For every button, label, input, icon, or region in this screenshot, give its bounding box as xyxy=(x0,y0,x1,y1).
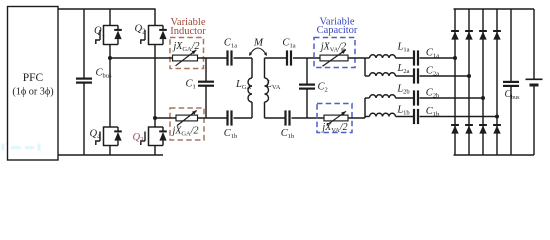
wire split top vertical xyxy=(364,58,366,76)
variable capacitor jXVA/2 top symbol xyxy=(320,55,348,61)
wire leg B (Q2 source to Q3 drain) xyxy=(154,45,156,128)
wire L1a to C1a xyxy=(396,57,414,59)
inductor L2b coil xyxy=(370,95,396,98)
wire LVA bottom lead xyxy=(264,102,266,118)
wire variable inductor to node C1 xyxy=(198,57,228,59)
wire C_bus bottom xyxy=(83,83,85,155)
diode D2 top xyxy=(465,30,473,32)
capacitor C1b left plates xyxy=(226,110,228,125)
wire C2b to rectifier leg xyxy=(420,97,484,99)
wire right rail bottom xyxy=(306,89,308,118)
svg-text:(1ϕ or 3ϕ): (1ϕ or 3ϕ) xyxy=(12,87,53,98)
wire C_bus top xyxy=(83,9,85,78)
dashed box variable capacitor top xyxy=(314,38,355,68)
node rectifier leg 4 junction xyxy=(495,115,499,119)
PFC converter block xyxy=(8,7,59,161)
wire LVA bottom to C1b right xyxy=(265,117,286,119)
svg-text:Capacitor: Capacitor xyxy=(317,25,358,36)
dashed box variable capacitor bottom xyxy=(317,104,352,133)
wire L1b to C1b xyxy=(396,116,414,118)
dashed box variable inductor bottom xyxy=(170,108,204,140)
svg-text:PFC: PFC xyxy=(23,72,44,84)
wire C1b to LGA bottom xyxy=(234,117,253,119)
wire top rail (PFC to Q2 drain) xyxy=(58,8,156,10)
wire left rail bottom xyxy=(205,86,207,118)
wire LGA bottom lead xyxy=(251,102,253,118)
wire rectifier top rail xyxy=(454,8,535,10)
diode D3 top xyxy=(479,30,487,32)
svg-text:M: M xyxy=(253,37,264,49)
wire L2a to C2a xyxy=(396,75,414,77)
node A junction xyxy=(108,56,112,60)
capacitor C1a right plates xyxy=(286,50,288,65)
wire right rail top xyxy=(306,58,308,84)
diode D3 bottom xyxy=(479,124,487,126)
diode D2 bottom xyxy=(465,124,473,126)
diode D1 top xyxy=(451,30,459,32)
capacitor C1a plates xyxy=(413,50,415,65)
node rectifier leg 3 junction xyxy=(481,96,485,100)
capacitor C_bus output plates xyxy=(503,81,519,83)
wire C1b to rectifier leg xyxy=(420,116,498,118)
capacitor C2 plates xyxy=(299,83,315,85)
wire output capacitor top xyxy=(510,9,512,82)
node rectifier leg 2 junction xyxy=(467,74,471,78)
transistor Q2 xyxy=(149,25,164,27)
wire rectifier leg 3 xyxy=(482,9,484,155)
wire output capacitor bottom xyxy=(510,87,512,156)
wire bottom rail (PFC to Q3 source) xyxy=(58,154,163,156)
wire rectifier bottom rail xyxy=(454,154,535,156)
wire node A to variable inductor xyxy=(110,57,173,59)
node B junction xyxy=(153,116,157,120)
transistor Q4 xyxy=(104,126,119,128)
wire var cap top to split xyxy=(348,57,370,59)
diode D1 bottom xyxy=(451,124,459,126)
wire variable inductor bottom to C1b xyxy=(198,117,228,119)
inductor L2a coil xyxy=(370,73,396,76)
wire left rail top xyxy=(205,58,207,82)
wire rectifier leg 1 xyxy=(454,9,456,155)
capacitor C2a plates xyxy=(413,68,415,83)
wire C1a right to right rail xyxy=(293,57,320,59)
wire battery top xyxy=(533,9,535,79)
wire C2a to rectifier leg xyxy=(420,75,470,77)
mutual coupling M arc xyxy=(250,48,267,55)
wire C1a to rectifier leg xyxy=(420,57,456,59)
wire node B to variable inductor bottom xyxy=(155,117,176,119)
wire leg A (Q1 source to Q4 drain) xyxy=(109,45,111,128)
wire branch 1b from split xyxy=(365,116,370,118)
battery positive plate xyxy=(526,78,543,80)
wire C1b right to right rail xyxy=(292,117,325,119)
node rectifier leg 1 junction xyxy=(453,56,457,60)
wire battery bottom xyxy=(533,86,535,155)
capacitor C1a left plates xyxy=(226,50,228,65)
svg-text:Inductor: Inductor xyxy=(170,26,206,37)
capacitor C2b plates xyxy=(413,90,415,105)
wire C1a to LGA xyxy=(234,57,253,59)
wire LVA top lead xyxy=(264,58,266,78)
transistor Q1 xyxy=(104,25,119,27)
dashed box variable inductor top xyxy=(170,38,204,69)
inductor L1a coil xyxy=(370,55,396,58)
capacitor C_bus plates xyxy=(76,77,92,79)
wire Q3 source xyxy=(154,146,156,156)
inductor L1b coil xyxy=(370,113,396,116)
wire Q4 source xyxy=(109,146,111,156)
diode D4 top xyxy=(493,30,501,32)
variable inductor jXGA/2 top symbol xyxy=(173,55,198,61)
capacitor C1 plates xyxy=(198,81,214,83)
inductor LGA coil xyxy=(248,78,252,102)
wire branch 2b from split xyxy=(365,97,370,99)
wire var cap bottom to split xyxy=(348,117,365,119)
wire L2b to C2b xyxy=(396,97,414,99)
capacitor C1b plates xyxy=(413,109,415,124)
wire LVA to C1a right xyxy=(265,57,288,59)
wire rectifier leg 4 xyxy=(496,9,498,155)
wire rectifier leg 2 xyxy=(468,9,470,155)
wire split bottom vertical xyxy=(364,98,366,118)
capacitor C1b right plates xyxy=(284,110,286,125)
variable capacitor jXVA/2 bottom symbol xyxy=(324,115,348,121)
wire LGA top lead xyxy=(251,58,253,78)
wire Q1 drain xyxy=(109,9,111,26)
diode D4 bottom xyxy=(493,124,501,126)
wire Q2 drain xyxy=(154,9,156,26)
wire branch 2a from split xyxy=(365,75,370,77)
input stub mark xyxy=(2,144,41,151)
inductor LVA coil xyxy=(265,78,269,102)
battery negative plate xyxy=(530,84,539,87)
transistor Q3 xyxy=(149,126,164,128)
variable inductor jXGA/2 bottom symbol xyxy=(176,115,198,121)
